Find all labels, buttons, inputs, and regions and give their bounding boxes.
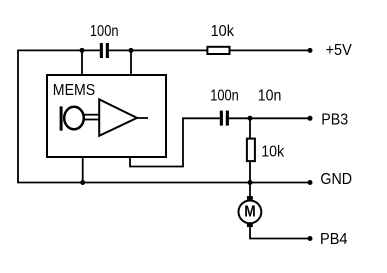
capacitor C2 100n (middle) [220,111,229,126]
svg-text:100n: 100n [90,23,119,40]
wire drop right cap node to MEMS box top [130,50,132,75]
svg-text:MEMS: MEMS [53,82,95,99]
svg-text:M: M [244,204,256,221]
node +5V terminal [308,48,313,53]
node PB3 terminal [308,116,313,121]
op-amp buffer triangle [99,99,137,135]
op-amp output stub [137,117,148,119]
junction dot GND / MEMS [80,180,85,185]
wire MEMS box bottom to GND rail [82,157,84,183]
svg-text:10k: 10k [261,143,285,160]
wire top +5V rail left of C1 [18,49,100,51]
motor bottom brush [247,223,253,227]
resistor R1 10k (top) [207,47,229,54]
wire drop left cap node to MEMS box top [81,50,83,75]
microphone output line upper [85,114,100,116]
junction dot C2 / R2 node [248,116,253,121]
motor M1 body [239,201,262,224]
wire node down to R2 and motor [249,118,251,197]
MEMS module box U1 [47,75,166,157]
svg-text:PB3: PB3 [321,112,348,129]
microphone element membrane bar [60,106,63,130]
svg-text:100n: 100n [210,88,239,105]
capacitor C1 100n (top) [100,43,109,58]
svg-text:GND: GND [320,171,352,188]
microphone output line lower [85,119,100,121]
junction dot left of C1 [80,48,85,53]
node PB4 terminal [308,236,313,241]
wire GND rail [17,182,310,184]
wire top +5V rail right of C1 [109,49,311,51]
wire left rail [17,50,19,183]
node GND terminal [308,180,313,185]
wire motor bottom to PB4 terminal [250,226,310,239]
junction dot GND / motor branch [248,180,253,185]
motor top brush [247,196,253,200]
svg-text:10n: 10n [258,88,282,105]
svg-text:10k: 10k [211,23,235,40]
junction dot right of C1 [129,48,134,53]
wire amp output step from box bottom to C2 [130,118,220,166]
microphone element circle [64,107,84,130]
svg-text:+5V: +5V [326,42,352,59]
svg-text:PB4: PB4 [320,231,348,248]
wire C2 to PB3 terminal [229,117,310,119]
resistor R2 10k (vertical) [247,139,255,162]
